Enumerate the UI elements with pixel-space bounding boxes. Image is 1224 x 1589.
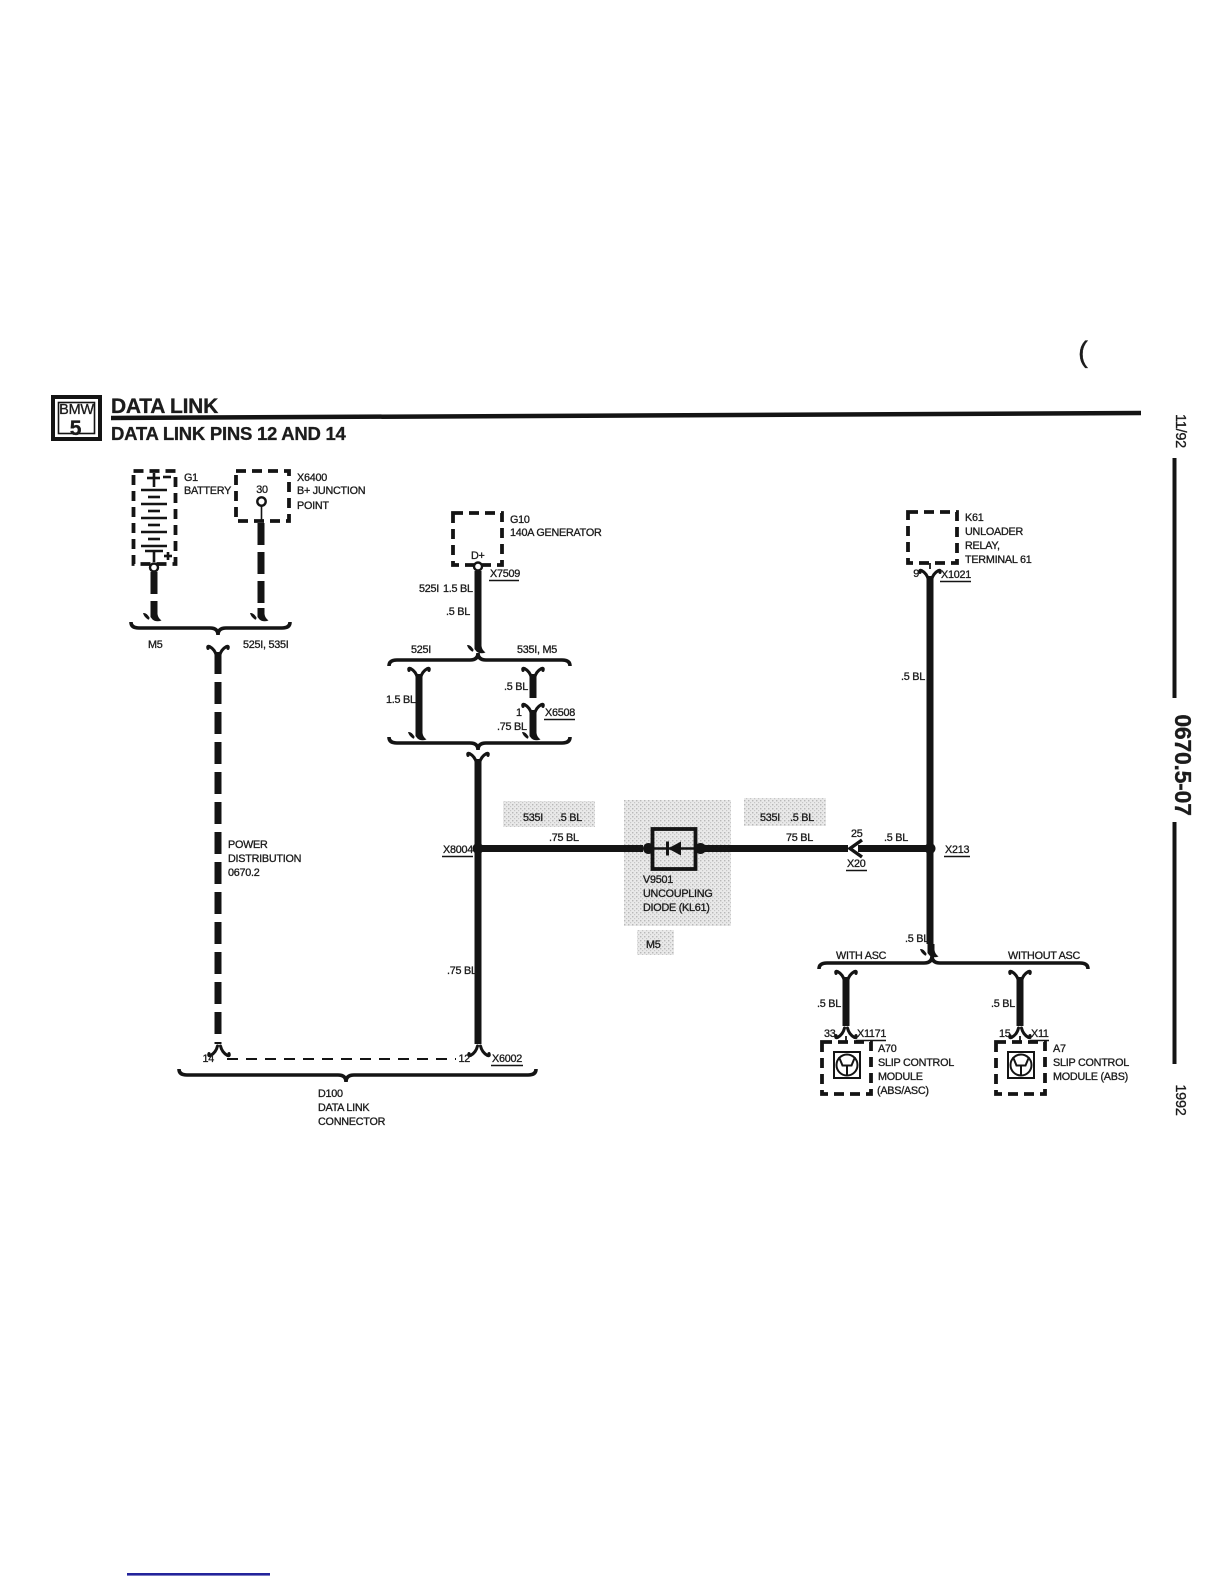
X6400 labels [297, 472, 365, 512]
wire X20 to X213 [858, 845, 929, 852]
svg-text:.5 BL: .5 BL [504, 681, 528, 693]
svg-text:X6400: X6400 [297, 472, 327, 484]
svg-text:DIODE (KL61): DIODE (KL61) [643, 902, 710, 914]
A7 labels [1053, 1043, 1129, 1083]
svg-text:G10: G10 [510, 514, 530, 526]
svg-text:G1: G1 [184, 472, 198, 484]
svg-text:.5 BL: .5 BL [446, 606, 470, 618]
wire branch 1.5 BL [409, 668, 430, 678]
wire without-asc branch [1010, 971, 1031, 981]
battery G1 box [134, 471, 176, 564]
svg-text:1.5 BL: 1.5 BL [443, 583, 473, 595]
node dot diode left [643, 843, 654, 854]
node dot diode right [695, 843, 706, 854]
svg-text:V9501: V9501 [643, 874, 673, 886]
A7 icon [1008, 1052, 1034, 1078]
svg-text:11/92: 11/92 [1172, 414, 1188, 448]
svg-text:DATA LINK: DATA LINK [111, 395, 218, 418]
slip control module A7 box [996, 1042, 1045, 1094]
connector X1021 [929, 563, 931, 569]
V9501 labels [643, 874, 713, 914]
dashed line pin14 to pin12 [227, 1058, 456, 1060]
diode symbol [652, 847, 699, 849]
brace split 525I / 535I M5 [389, 653, 570, 666]
svg-text:525I: 525I [419, 583, 439, 595]
svg-text:SLIP CONTROL: SLIP CONTROL [1053, 1057, 1129, 1069]
svg-text:140A GENERATOR: 140A GENERATOR [510, 527, 602, 539]
svg-text:5: 5 [70, 417, 82, 440]
main wire diode to X20 [704, 845, 848, 852]
svg-text:525I: 525I [411, 644, 431, 656]
labels POWER DISTRIBUTION 0670.2 [228, 839, 301, 879]
K61 labels [965, 512, 1032, 566]
brace merge battery/X6400 [131, 622, 290, 635]
svg-text:535I: 535I [523, 812, 543, 824]
svg-text:MODULE (ABS): MODULE (ABS) [1053, 1071, 1128, 1083]
bottom blue rule [127, 1573, 270, 1576]
margin rule top [1173, 458, 1177, 698]
brace split WITH/WITHOUT ASC [819, 956, 1088, 969]
svg-text:X1171: X1171 [857, 1028, 886, 1040]
svg-text:TERMINAL 61: TERMINAL 61 [965, 554, 1032, 566]
svg-text:.5 BL: .5 BL [905, 933, 929, 945]
svg-text:A70: A70 [878, 1043, 897, 1055]
shading patch M5 [637, 930, 674, 955]
svg-text:X1021: X1021 [941, 569, 971, 581]
svg-text:535I: 535I [760, 812, 780, 824]
svg-text:.75 BL: .75 BL [447, 965, 477, 977]
svg-text:BATTERY: BATTERY [184, 485, 231, 497]
D100 labels [318, 1088, 386, 1128]
svg-text:B+ JUNCTION: B+ JUNCTION [297, 485, 365, 497]
svg-text:M5: M5 [148, 639, 163, 651]
svg-text:25: 25 [851, 828, 863, 840]
G10 labels [510, 514, 602, 539]
svg-text:WITHOUT ASC: WITHOUT ASC [1008, 950, 1080, 962]
svg-text:SLIP CONTROL: SLIP CONTROL [878, 1057, 954, 1069]
BMW 5 logo [53, 397, 100, 440]
node X213 [925, 843, 936, 854]
wire K61 down to X213 [927, 576, 934, 944]
shading patch right labels [744, 798, 826, 826]
generator G10 box [453, 513, 502, 565]
svg-text:DISTRIBUTION: DISTRIBUTION [228, 853, 301, 865]
svg-text:DATA LINK PINS 12 AND 14: DATA LINK PINS 12 AND 14 [111, 423, 346, 444]
wire M5 power distribution [208, 646, 229, 656]
brace merge to X8004 [389, 737, 570, 750]
main wire X8004 to diode [481, 845, 643, 852]
svg-text:MODULE: MODULE [878, 1071, 923, 1083]
wire merged down to X8004 and X6002 [468, 753, 489, 763]
svg-text:(ABS/ASC): (ABS/ASC) [877, 1085, 929, 1097]
svg-text:9: 9 [913, 568, 919, 580]
svg-text:.5 BL: .5 BL [558, 812, 582, 824]
svg-text:K61: K61 [965, 512, 984, 524]
svg-text:75 BL: 75 BL [786, 832, 813, 844]
A70 icon [834, 1052, 860, 1078]
svg-text:535I, M5: 535I, M5 [517, 644, 557, 656]
brace D100 connector [179, 1069, 536, 1082]
shading patch left labels [503, 801, 595, 827]
wire battery to brace [151, 572, 158, 608]
slip control module A70 box [822, 1042, 871, 1094]
svg-text:14: 14 [202, 1053, 214, 1065]
svg-text:X213: X213 [945, 844, 969, 856]
svg-text:DATA LINK: DATA LINK [318, 1102, 370, 1114]
svg-text:.5 BL: .5 BL [901, 671, 925, 683]
junction point X6400 box [236, 471, 289, 521]
svg-text:.5 BL: .5 BL [790, 812, 814, 824]
svg-text:0670.2: 0670.2 [228, 867, 260, 879]
svg-text:X8004: X8004 [443, 844, 473, 856]
svg-text:POINT: POINT [297, 500, 329, 512]
svg-text:POWER: POWER [228, 839, 268, 851]
wire G10 down [475, 571, 482, 641]
svg-text:(: ( [1078, 336, 1088, 369]
svg-text:.75 BL: .75 BL [549, 832, 579, 844]
wire branch .75 BL lower [530, 710, 537, 728]
connector X20 arrow [850, 840, 862, 857]
svg-text:15: 15 [999, 1028, 1011, 1040]
svg-text:X20: X20 [847, 858, 866, 870]
connector X6508 [523, 704, 544, 714]
svg-text:X6002: X6002 [492, 1053, 522, 1065]
wire with-asc branch [836, 971, 857, 981]
svg-text:525I, 535I: 525I, 535I [243, 639, 289, 651]
hook above asc brace [920, 944, 939, 957]
uncoupling diode V9501 box [653, 829, 696, 869]
svg-text:.75 BL: .75 BL [497, 721, 527, 733]
battery G1 symbol [141, 473, 172, 572]
svg-text:A7: A7 [1053, 1043, 1066, 1055]
svg-text:30: 30 [256, 484, 268, 496]
header rule [111, 413, 1141, 418]
svg-text:CONNECTOR: CONNECTOR [318, 1116, 386, 1128]
svg-text:.5 BL: .5 BL [884, 832, 908, 844]
svg-text:.5 BL: .5 BL [991, 998, 1015, 1010]
svg-text:12: 12 [458, 1053, 470, 1065]
svg-text:1992: 1992 [1172, 1084, 1188, 1115]
svg-text:D100: D100 [318, 1088, 343, 1100]
A70 labels [877, 1043, 954, 1097]
svg-text:X11: X11 [1031, 1028, 1049, 1040]
svg-text:33: 33 [824, 1028, 836, 1040]
svg-text:1: 1 [516, 707, 522, 719]
svg-text:BMW: BMW [59, 402, 94, 418]
svg-text:.5 BL: .5 BL [817, 998, 841, 1010]
svg-text:M5: M5 [646, 939, 661, 951]
wire X6400 to brace [258, 523, 265, 608]
svg-text:UNLOADER: UNLOADER [965, 526, 1023, 538]
svg-text:WITH ASC: WITH ASC [836, 950, 887, 962]
wire branch .5 BL upper [523, 668, 544, 678]
node X8004 [473, 843, 484, 854]
margin rule bottom [1173, 822, 1177, 1064]
shading patch diode area [624, 800, 731, 926]
battery labels G1 BATTERY [184, 472, 231, 497]
svg-text:RELAY,: RELAY, [965, 540, 1000, 552]
svg-text:X7509: X7509 [490, 568, 520, 580]
svg-text:UNCOUPLING: UNCOUPLING [643, 888, 713, 900]
svg-text:0670.5-07: 0670.5-07 [1170, 714, 1196, 815]
svg-text:D+: D+ [471, 550, 485, 562]
svg-text:1.5 BL: 1.5 BL [386, 694, 416, 706]
svg-text:X6508: X6508 [545, 707, 575, 719]
unloader relay K61 box [908, 512, 957, 563]
